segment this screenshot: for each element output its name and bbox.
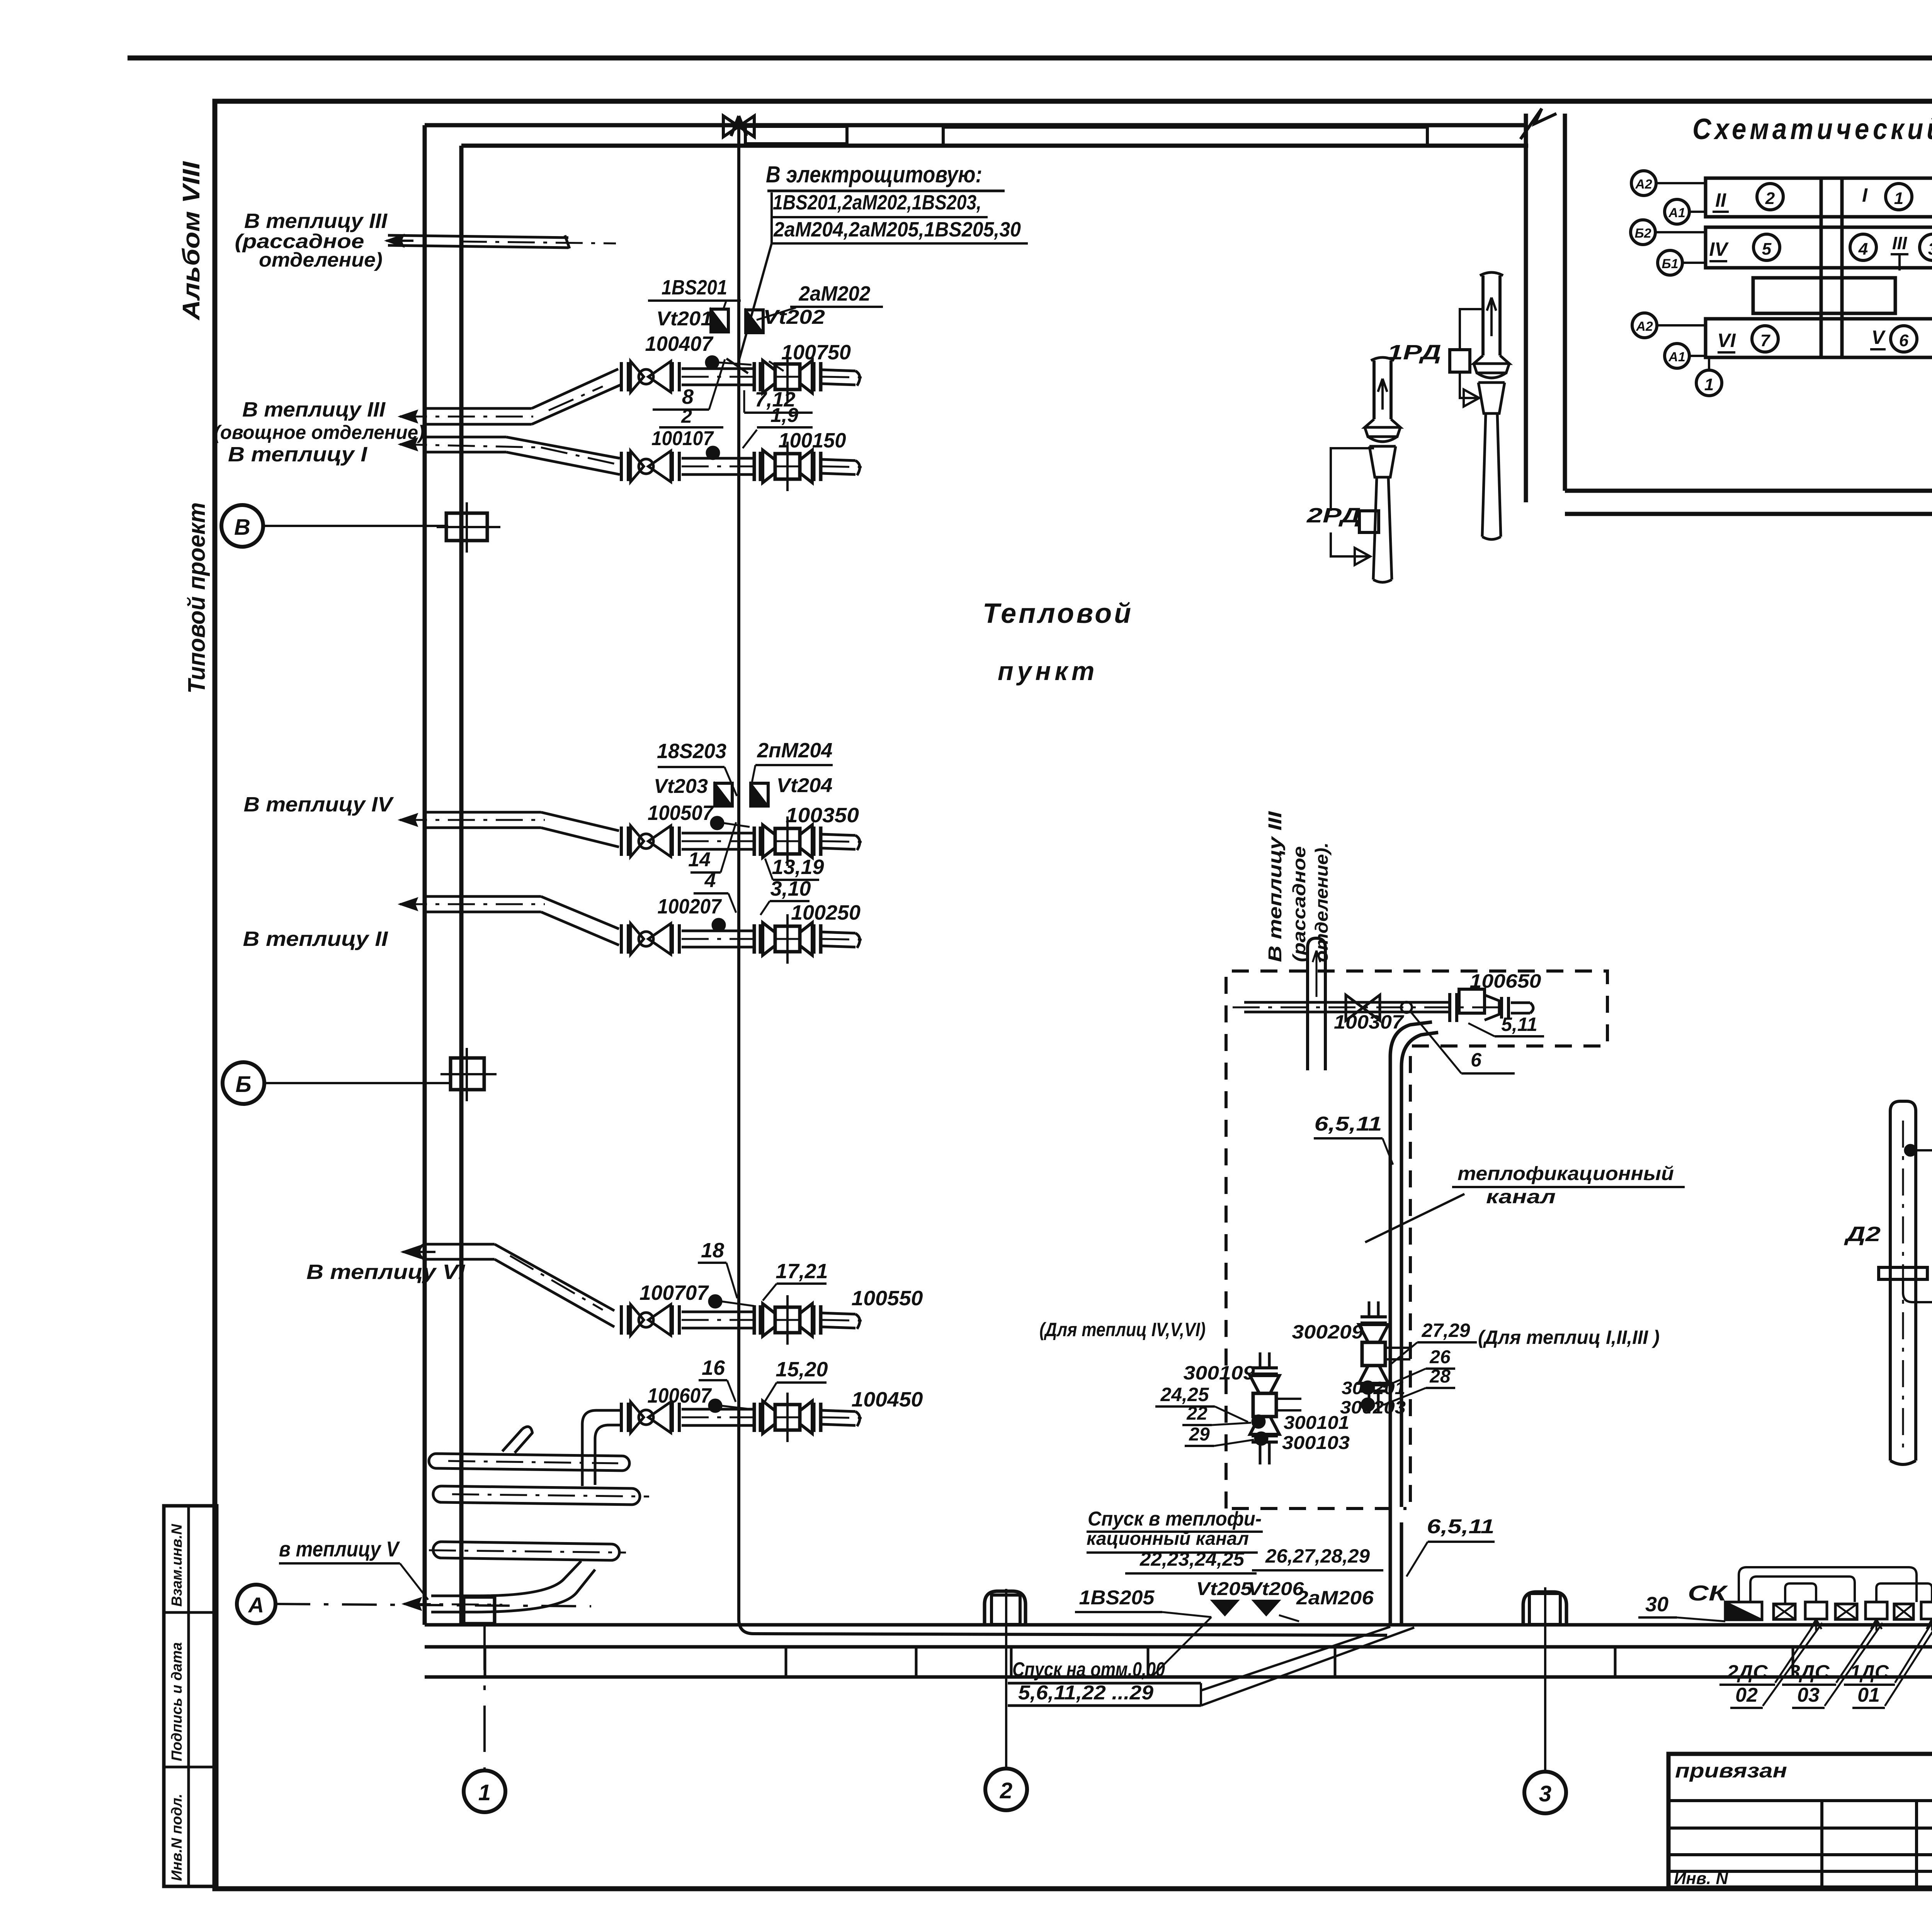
svg-text:2ДС: 2ДС bbox=[1726, 1661, 1768, 1683]
svg-text:15,20: 15,20 bbox=[776, 1358, 828, 1381]
valve row 7 (100450) bbox=[621, 1393, 867, 1442]
svg-text:1: 1 bbox=[478, 1780, 491, 1805]
svg-text:100407: 100407 bbox=[645, 332, 714, 355]
svg-text:26,27,28,29: 26,27,28,29 bbox=[1265, 1545, 1370, 1567]
svg-text:300209: 300209 bbox=[1292, 1321, 1364, 1343]
svg-text:Б: Б bbox=[235, 1072, 251, 1097]
svg-text:2: 2 bbox=[1765, 189, 1775, 208]
svg-text:А1: А1 bbox=[1668, 206, 1685, 220]
svg-text:Vt202: Vt202 bbox=[763, 306, 825, 328]
svg-text:2: 2 bbox=[1000, 1778, 1012, 1803]
svg-text:А2: А2 bbox=[1636, 319, 1653, 334]
svg-text:22,23,24,25: 22,23,24,25 bbox=[1139, 1548, 1245, 1570]
axis 3 pedestal bbox=[1523, 1592, 1566, 1625]
wire Д2-2ТС bbox=[1916, 1149, 1932, 1151]
wall: corridor bottom lower bbox=[1565, 512, 1932, 516]
svg-text:Спуск в теплофи-: Спуск в теплофи- bbox=[1088, 1508, 1262, 1530]
diag stub pipe bbox=[502, 1427, 532, 1453]
wall: room top inner bbox=[461, 144, 1528, 148]
svg-text:30: 30 bbox=[1645, 1593, 1668, 1616]
svg-text:Взам.инв.N: Взам.инв.N bbox=[169, 1524, 185, 1607]
svg-text:(Для теплиц IV,V,VI): (Для теплиц IV,V,VI) bbox=[1039, 1319, 1206, 1340]
pipe to greenhouse III up bbox=[1308, 938, 1325, 1070]
pipe bundle 3 bbox=[433, 1542, 619, 1560]
svg-text:привязан: привязан bbox=[1675, 1760, 1787, 1782]
svg-text:А2: А2 bbox=[1635, 177, 1652, 192]
svg-text:100650: 100650 bbox=[1470, 970, 1541, 992]
svg-text:2аМ206: 2аМ206 bbox=[1296, 1587, 1374, 1609]
svg-text:1: 1 bbox=[1894, 189, 1903, 208]
svg-text:13,19: 13,19 bbox=[772, 855, 824, 879]
svg-text:В: В bbox=[234, 515, 250, 540]
svg-text:теплофикационный: теплофикационный bbox=[1458, 1163, 1674, 1184]
schematic mid block bbox=[1753, 278, 1895, 313]
svg-text:100450: 100450 bbox=[852, 1388, 923, 1411]
svg-text:1: 1 bbox=[1704, 375, 1714, 394]
svg-text:В теплицу III: В теплицу III bbox=[244, 209, 388, 233]
floor tray dividers bbox=[485, 1647, 1932, 1677]
svg-text:100550: 100550 bbox=[852, 1287, 923, 1310]
schematic row 1 bbox=[1706, 178, 1932, 217]
wires arcs over СК bbox=[1739, 1567, 1917, 1602]
pressure unit 1РД pipe bbox=[1483, 276, 1500, 355]
axis А line bbox=[276, 1604, 591, 1606]
svg-text:2РД: 2РД bbox=[1306, 504, 1361, 527]
svg-text:5,6,11,22 ...29: 5,6,11,22 ...29 bbox=[1018, 1682, 1153, 1704]
valve row 2 (100750) bbox=[621, 352, 867, 401]
svg-text:6: 6 bbox=[1471, 1049, 1482, 1071]
canal top pipe bbox=[1244, 1001, 1450, 1004]
axis Б wall box bbox=[451, 1058, 484, 1090]
svg-text:28: 28 bbox=[1429, 1366, 1451, 1387]
main cable riser vertical bbox=[739, 118, 1387, 1635]
svg-text:1BS201: 1BS201 bbox=[662, 276, 727, 299]
wall: room left inner bbox=[459, 146, 464, 1625]
svg-text:29: 29 bbox=[1189, 1424, 1210, 1445]
svg-text:3: 3 bbox=[1539, 1781, 1551, 1806]
pipe row 6 approach bbox=[427, 1243, 495, 1246]
floor line bottom bbox=[425, 1675, 1932, 1679]
canal dashed outline bbox=[1226, 971, 1607, 1509]
svg-text:3: 3 bbox=[1928, 240, 1932, 259]
canal pipe double vertical bbox=[1390, 1057, 1401, 1625]
svg-text:Vt203: Vt203 bbox=[654, 775, 708, 798]
svg-text:18S203: 18S203 bbox=[657, 740, 726, 763]
relay box 1РД bbox=[1450, 350, 1470, 372]
axis Б circle bbox=[223, 1062, 264, 1104]
привязан box bbox=[1668, 1754, 1932, 1888]
legs bbox=[1811, 1619, 1821, 1631]
axis 2 pedestal bbox=[985, 1591, 1026, 1625]
svg-text:Б1: Б1 bbox=[1662, 257, 1679, 271]
svg-text:100307: 100307 bbox=[1334, 1011, 1404, 1033]
svg-text:2аМ204,2аМ205,1BS205,30: 2аМ204,2аМ205,1BS205,30 bbox=[773, 218, 1021, 241]
valve row 5 (100250) bbox=[621, 914, 867, 964]
relay box 2РД bbox=[1359, 511, 1379, 532]
floor line top bbox=[425, 1623, 1932, 1627]
svg-text:В теплицу II: В теплицу II bbox=[243, 927, 388, 951]
riser top arrow bbox=[731, 116, 747, 136]
svg-text:14: 14 bbox=[688, 849, 711, 871]
pipe bundle 2 bbox=[433, 1486, 640, 1505]
Д2 flange bbox=[1879, 1267, 1927, 1279]
svg-text:Vt201: Vt201 bbox=[656, 308, 713, 330]
svg-text:5,11: 5,11 bbox=[1501, 1014, 1537, 1035]
svg-text:3ДС: 3ДС bbox=[1789, 1661, 1830, 1683]
svg-text:А1: А1 bbox=[1668, 350, 1685, 364]
cable tray on top wall 2 bbox=[943, 127, 1427, 146]
axis 1 line bbox=[483, 1624, 486, 1770]
svg-text:22: 22 bbox=[1186, 1403, 1207, 1424]
svg-text:отделение): отделение) bbox=[259, 249, 383, 271]
svg-text:Подпись и дата: Подпись и дата bbox=[169, 1642, 185, 1761]
svg-text:100107: 100107 bbox=[651, 427, 714, 450]
row 7 elbow from bundle bbox=[582, 1410, 621, 1486]
sheet top edge line bbox=[128, 56, 1932, 61]
schematic corridor verticals bbox=[1820, 178, 1823, 357]
sensor boxes row bbox=[1774, 1604, 1795, 1619]
pipe в теплицу V with elbow bbox=[431, 1561, 595, 1612]
svg-text:СК: СК bbox=[1688, 1581, 1728, 1605]
left margin stamp column bbox=[164, 1506, 217, 1886]
svg-text:(Для теплиц I,II,III ): (Для теплиц I,II,III ) bbox=[1478, 1327, 1660, 1348]
svg-text:02: 02 bbox=[1735, 1684, 1758, 1706]
valve row 4 (100350) bbox=[621, 816, 867, 866]
svg-text:В теплицу III: В теплицу III bbox=[242, 398, 386, 421]
svg-text:5: 5 bbox=[1762, 240, 1772, 259]
axis Б line bbox=[264, 1082, 452, 1084]
pipe row 4 approach bbox=[427, 811, 541, 814]
svg-text:V: V bbox=[1871, 327, 1886, 348]
pipe to greenhouse III rassad bbox=[388, 235, 568, 238]
svg-text:1,9: 1,9 bbox=[770, 404, 798, 427]
pipe bundle 1 bbox=[429, 1454, 629, 1471]
svg-text:100750: 100750 bbox=[781, 341, 851, 364]
wall: room left outer bbox=[423, 125, 427, 1625]
svg-text:27,29: 27,29 bbox=[1421, 1320, 1470, 1341]
svg-text:III: III bbox=[1892, 233, 1908, 253]
valve row 6 (100550) bbox=[621, 1295, 867, 1345]
svg-text:16: 16 bbox=[702, 1356, 725, 1379]
svg-text:100250: 100250 bbox=[791, 901, 861, 924]
svg-text:8: 8 bbox=[682, 385, 694, 408]
wall: corridor bottom upper bbox=[1565, 489, 1932, 493]
svg-text:6,5,11: 6,5,11 bbox=[1315, 1113, 1382, 1135]
actuator 100650 bbox=[1448, 993, 1451, 1022]
svg-text:Инв. N: Инв. N bbox=[1674, 1869, 1728, 1888]
wall: corridor left outer bbox=[1524, 114, 1528, 502]
svg-text:в теплицу V: в теплицу V bbox=[279, 1537, 400, 1561]
svg-text:2пМ204: 2пМ204 bbox=[757, 739, 833, 762]
canal top valve bowtie bbox=[1346, 995, 1380, 1020]
wall: corridor left inner bbox=[1563, 114, 1567, 491]
svg-text:03: 03 bbox=[1797, 1684, 1820, 1706]
wall break symbol bbox=[1520, 109, 1556, 139]
svg-text:IV: IV bbox=[1709, 238, 1729, 260]
wire Д2 bottom to riser bbox=[1903, 1279, 1932, 1325]
axis В line bbox=[263, 525, 448, 527]
svg-text:I: I bbox=[1862, 184, 1868, 206]
svg-text:1РД: 1РД bbox=[1387, 341, 1441, 364]
svg-text:Альбом VIII: Альбом VIII bbox=[178, 161, 205, 321]
svg-text:100350: 100350 bbox=[786, 804, 859, 827]
svg-text:канал: канал bbox=[1486, 1186, 1556, 1207]
axis 3 circle bbox=[1524, 1772, 1566, 1813]
svg-text:01: 01 bbox=[1857, 1684, 1880, 1706]
svg-text:7: 7 bbox=[1760, 331, 1771, 350]
schematic bottom circle 1 bbox=[1708, 357, 1710, 370]
svg-text:4: 4 bbox=[704, 869, 716, 892]
svg-text:Типовой проект: Типовой проект bbox=[184, 502, 210, 694]
svg-text:кационный канал: кационный канал bbox=[1087, 1529, 1249, 1549]
svg-text:Спуск на отм.0,00: Спуск на отм.0,00 bbox=[1012, 1658, 1165, 1681]
leader lines ДС bbox=[1775, 1621, 1816, 1683]
svg-text:(овощное отделение): (овощное отделение) bbox=[214, 422, 425, 443]
svg-text:II: II bbox=[1715, 189, 1726, 211]
valve row 3 (100150) bbox=[621, 442, 867, 491]
svg-text:VI: VI bbox=[1717, 330, 1736, 351]
СК box (filled) bbox=[1725, 1602, 1762, 1620]
axis В circle bbox=[221, 505, 263, 547]
svg-text:26: 26 bbox=[1429, 1347, 1451, 1367]
svg-text:Vt205: Vt205 bbox=[1196, 1579, 1253, 1599]
wall: room top outer bbox=[425, 123, 1526, 128]
svg-text:Тепловой: Тепловой bbox=[983, 598, 1133, 629]
cable tray on top wall 1 bbox=[745, 126, 847, 144]
wire 1РД bbox=[1460, 309, 1483, 398]
svg-text:6: 6 bbox=[1899, 331, 1909, 350]
axis В wall box bbox=[446, 513, 487, 541]
pipe row 3 approach bbox=[427, 436, 506, 439]
svg-text:В теплицу IV: В теплицу IV bbox=[244, 793, 394, 816]
svg-text:1BS201,2аМ202,1BS203,: 1BS201,2аМ202,1BS203, bbox=[773, 191, 981, 214]
svg-text:6,5,11: 6,5,11 bbox=[1427, 1515, 1495, 1538]
svg-text:300103: 300103 bbox=[1282, 1433, 1350, 1453]
svg-text:Б2: Б2 bbox=[1635, 226, 1651, 241]
svg-text:300203: 300203 bbox=[1340, 1397, 1406, 1417]
svg-text:В теплицу VI: В теплицу VI bbox=[306, 1260, 465, 1284]
svg-text:100507: 100507 bbox=[648, 801, 714, 825]
svg-text:3,10: 3,10 bbox=[770, 877, 811, 900]
svg-text:В электрощитовую:: В электрощитовую: bbox=[766, 162, 982, 187]
pressure unit 2РД pipe bbox=[1374, 361, 1391, 419]
svg-text:Инв.N подл.: Инв.N подл. bbox=[169, 1794, 185, 1881]
svg-text:В теплицу III: В теплицу III bbox=[1265, 811, 1286, 962]
svg-text:100207: 100207 bbox=[658, 895, 723, 918]
control valve 300209 bbox=[1359, 1301, 1410, 1413]
svg-text:Схематический план: Схематический план bbox=[1692, 113, 1932, 146]
axis А/1 wall box bbox=[464, 1597, 495, 1624]
svg-text:Vt206: Vt206 bbox=[1248, 1579, 1304, 1599]
callout leader to riser bbox=[737, 243, 772, 366]
svg-text:18: 18 bbox=[701, 1239, 724, 1262]
axis 2 line bbox=[1005, 1629, 1007, 1769]
schematic axis circles left bbox=[1631, 171, 1656, 196]
control valve 300109 bbox=[1250, 1352, 1301, 1464]
axis А circle bbox=[237, 1585, 276, 1623]
pipe row 2 approach bbox=[427, 407, 532, 410]
svg-text:пункт: пункт bbox=[998, 656, 1098, 686]
svg-text:Д2: Д2 bbox=[1844, 1223, 1881, 1246]
svg-text:отделение).: отделение). bbox=[1311, 842, 1332, 962]
axis 3 line bbox=[1544, 1629, 1546, 1772]
svg-text:2: 2 bbox=[681, 405, 692, 427]
svg-text:300109: 300109 bbox=[1184, 1362, 1255, 1384]
axis 1 circle bbox=[464, 1770, 505, 1812]
svg-text:2аМ202: 2аМ202 bbox=[799, 282, 871, 305]
sensor pipe Д2 bbox=[1890, 1101, 1916, 1464]
svg-text:300201: 300201 bbox=[1342, 1378, 1405, 1398]
svg-text:4: 4 bbox=[1858, 240, 1868, 259]
svg-text:А: А bbox=[248, 1593, 264, 1617]
svg-text:100707: 100707 bbox=[639, 1281, 709, 1304]
svg-text:(рассадное: (рассадное bbox=[1289, 846, 1309, 962]
svg-text:1BS205: 1BS205 bbox=[1079, 1587, 1155, 1609]
svg-text:Vt204: Vt204 bbox=[777, 774, 833, 797]
pipe row 5 approach bbox=[427, 895, 541, 898]
schematic row 2 bbox=[1706, 227, 1932, 268]
svg-text:17,21: 17,21 bbox=[776, 1260, 828, 1283]
schematic row 3 bbox=[1706, 319, 1932, 357]
svg-text:24,25: 24,25 bbox=[1160, 1384, 1209, 1405]
svg-text:В теплицу I: В теплицу I bbox=[228, 443, 367, 466]
svg-text:300101: 300101 bbox=[1284, 1413, 1349, 1433]
svg-text:1ДС: 1ДС bbox=[1850, 1661, 1889, 1683]
axis 2 circle bbox=[985, 1769, 1027, 1810]
wire 2РД bbox=[1331, 448, 1374, 556]
valve X on top wall at riser bbox=[723, 116, 754, 137]
floor line mid bbox=[425, 1645, 1932, 1649]
